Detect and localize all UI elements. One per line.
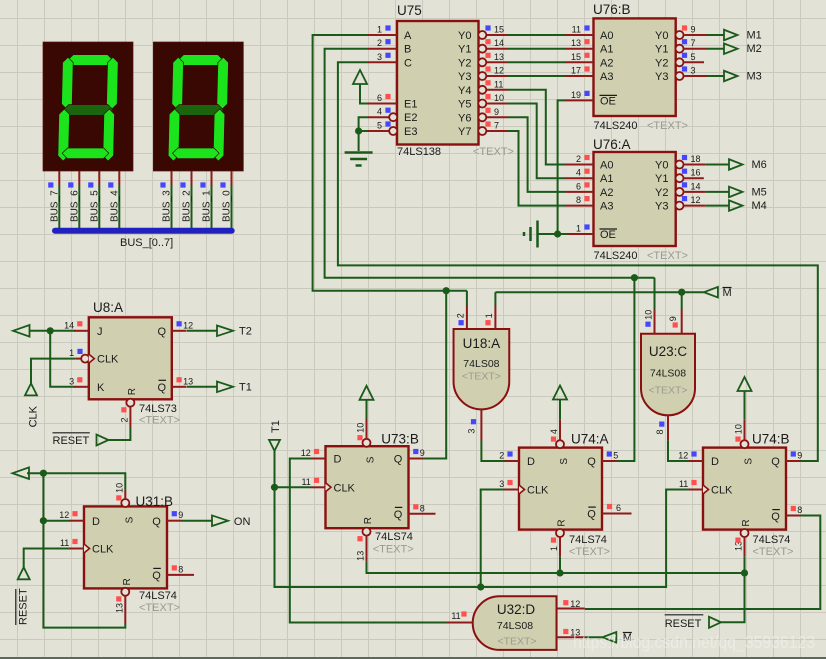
svg-text:8: 8 (655, 429, 665, 434)
svg-text:<TEXT>: <TEXT> (473, 146, 514, 158)
svg-text:Q: Q (152, 570, 161, 582)
svg-text:74LS74: 74LS74 (139, 590, 177, 602)
svg-text:11: 11 (572, 25, 581, 35)
svg-text:10: 10 (356, 423, 366, 433)
svg-text:S: S (124, 516, 135, 523)
svg-text:Y0: Y0 (655, 30, 668, 42)
svg-text:13: 13 (356, 551, 366, 561)
svg-text:BUS_5: BUS_5 (89, 190, 100, 222)
svg-text:OE: OE (600, 95, 616, 107)
svg-text:M5: M5 (752, 186, 767, 198)
svg-text:4: 4 (549, 429, 559, 434)
svg-text:<TEXT>: <TEXT> (569, 546, 610, 558)
svg-text:A: A (404, 30, 412, 42)
svg-text:11: 11 (679, 479, 688, 489)
svg-text:B: B (404, 44, 411, 56)
svg-text:14: 14 (64, 320, 74, 330)
svg-text:BUS_6: BUS_6 (69, 190, 80, 222)
svg-text:16: 16 (691, 168, 701, 178)
svg-text:U74:B: U74:B (752, 432, 790, 447)
svg-text:12: 12 (678, 451, 688, 461)
svg-text:<TEXT>: <TEXT> (647, 120, 688, 132)
svg-text:Y1: Y1 (655, 44, 668, 56)
svg-text:1: 1 (484, 313, 494, 318)
svg-text:9: 9 (797, 451, 802, 461)
svg-text:11: 11 (494, 79, 503, 89)
svg-text:A3: A3 (600, 201, 613, 213)
svg-text:RESET: RESET (53, 435, 90, 447)
svg-text:74LS240: 74LS240 (594, 120, 638, 132)
svg-text:J: J (97, 326, 103, 338)
svg-text:2: 2 (499, 451, 504, 461)
svg-text:Y0: Y0 (458, 30, 471, 42)
svg-text:74LS08: 74LS08 (497, 620, 533, 632)
svg-text:D: D (527, 456, 535, 468)
svg-text:Y2: Y2 (655, 57, 668, 69)
svg-text:D: D (711, 456, 719, 468)
svg-text:2: 2 (120, 417, 130, 422)
svg-text:M3: M3 (747, 71, 762, 83)
svg-text:R: R (741, 519, 752, 526)
svg-text:6: 6 (576, 181, 581, 191)
svg-text:15: 15 (571, 52, 581, 62)
svg-text:U18:A: U18:A (463, 336, 501, 351)
svg-text:Y3: Y3 (655, 201, 668, 213)
svg-text:M4: M4 (752, 200, 767, 212)
svg-text:9: 9 (494, 107, 499, 117)
svg-text:13: 13 (494, 52, 504, 62)
svg-text:5: 5 (613, 451, 618, 461)
svg-text:Y5: Y5 (458, 99, 471, 111)
svg-text:Y3: Y3 (458, 71, 471, 83)
svg-text:A3: A3 (600, 71, 613, 83)
svg-text:Q: Q (152, 516, 161, 528)
svg-text:14: 14 (494, 38, 504, 48)
svg-text:12: 12 (691, 195, 701, 205)
svg-text:Y2: Y2 (458, 57, 471, 69)
svg-text:D: D (92, 516, 100, 528)
svg-text:CLK: CLK (334, 482, 356, 494)
svg-text:74LS74: 74LS74 (753, 534, 791, 546)
svg-text:19: 19 (571, 90, 581, 100)
svg-text:E1: E1 (404, 99, 417, 111)
svg-text:<TEXT>: <TEXT> (753, 546, 794, 558)
svg-text:13: 13 (115, 603, 125, 613)
svg-text:12: 12 (59, 510, 69, 520)
svg-text:S: S (366, 456, 377, 463)
svg-text:74LS240: 74LS240 (594, 250, 638, 262)
svg-text:E3: E3 (404, 126, 417, 138)
svg-text:2: 2 (377, 38, 382, 48)
svg-text:BUS_7: BUS_7 (49, 190, 60, 222)
svg-text:7: 7 (494, 121, 499, 131)
svg-text:<TEXT>: <TEXT> (139, 602, 180, 614)
svg-text:RESET: RESET (665, 618, 702, 630)
svg-text:14: 14 (691, 181, 701, 191)
svg-text:6: 6 (377, 93, 382, 103)
svg-text:Y3: Y3 (655, 71, 668, 83)
svg-text:CLK: CLK (527, 485, 549, 497)
svg-text:Y7: Y7 (458, 126, 471, 138)
svg-text:S: S (559, 458, 570, 465)
svg-text:M2: M2 (747, 43, 762, 55)
svg-text:17: 17 (571, 66, 581, 76)
svg-text:4: 4 (377, 107, 382, 117)
svg-text:BUS_3: BUS_3 (162, 190, 173, 222)
svg-text:U32:D: U32:D (497, 602, 536, 617)
svg-text:A1: A1 (600, 173, 613, 185)
svg-text:2: 2 (576, 154, 581, 164)
svg-text:M6: M6 (752, 159, 767, 171)
svg-text:A2: A2 (600, 187, 613, 199)
svg-text:74LS08: 74LS08 (650, 368, 686, 380)
svg-text:10: 10 (734, 424, 744, 434)
svg-text:8: 8 (420, 503, 425, 513)
svg-text:S: S (744, 458, 755, 465)
svg-text:11: 11 (451, 611, 460, 621)
svg-text:U76:B: U76:B (593, 2, 631, 17)
svg-text:9: 9 (178, 510, 183, 520)
svg-text:12: 12 (183, 320, 193, 330)
svg-text:A2: A2 (600, 57, 613, 69)
svg-text:Y2: Y2 (655, 187, 668, 199)
svg-text:9: 9 (668, 316, 678, 321)
svg-text:https://blog.csdn.net/qq_35936: https://blog.csdn.net/qq_35936123 (573, 632, 815, 653)
svg-text:C: C (404, 57, 412, 69)
svg-text:R: R (122, 578, 133, 585)
svg-text:74LS74: 74LS74 (375, 531, 413, 543)
svg-text:T1: T1 (270, 420, 282, 433)
svg-text:Y1: Y1 (655, 173, 668, 185)
svg-text:Q: Q (394, 454, 403, 466)
svg-text:D: D (334, 454, 342, 466)
svg-text:3: 3 (377, 52, 382, 62)
svg-text:3: 3 (69, 376, 74, 386)
svg-text:15: 15 (494, 25, 504, 35)
svg-text:13: 13 (183, 376, 193, 386)
svg-text:U8:A: U8:A (93, 300, 123, 315)
svg-text:BUS_[0..7]: BUS_[0..7] (120, 237, 173, 249)
svg-text:BUS_2: BUS_2 (182, 190, 193, 222)
svg-text:Y6: Y6 (458, 112, 471, 124)
svg-text:<TEXT>: <TEXT> (647, 250, 688, 262)
svg-text:Q: Q (394, 509, 403, 521)
svg-text:9: 9 (691, 25, 696, 35)
svg-text:74LS74: 74LS74 (569, 534, 607, 546)
svg-text:12: 12 (494, 66, 504, 76)
svg-text:U31:B: U31:B (136, 494, 174, 509)
svg-text:5: 5 (377, 121, 382, 131)
svg-text:M: M (723, 287, 732, 299)
svg-text:BUS_4: BUS_4 (109, 190, 120, 222)
svg-text:3: 3 (467, 429, 477, 434)
svg-text:U73:B: U73:B (381, 432, 419, 447)
svg-text:Q: Q (587, 509, 596, 521)
svg-text:5: 5 (691, 52, 696, 62)
svg-text:BUS_0: BUS_0 (222, 190, 233, 222)
svg-text:3: 3 (499, 479, 504, 489)
svg-text:11: 11 (60, 538, 69, 548)
svg-text:Q: Q (157, 326, 166, 338)
svg-text:74LS08: 74LS08 (463, 358, 499, 370)
svg-text:<TEXT>: <TEXT> (462, 371, 501, 383)
svg-text:10: 10 (494, 93, 504, 103)
svg-text:6: 6 (616, 503, 621, 513)
svg-text:Q: Q (157, 382, 166, 394)
svg-text:9: 9 (420, 448, 425, 458)
svg-text:10: 10 (643, 310, 653, 320)
svg-text:U76:A: U76:A (593, 137, 631, 152)
svg-text:U74:A: U74:A (571, 432, 609, 447)
svg-text:ON: ON (234, 516, 251, 528)
svg-text:E2: E2 (404, 112, 417, 124)
svg-text:A0: A0 (600, 30, 613, 42)
svg-text:CLK: CLK (97, 354, 119, 366)
svg-text:74LS73: 74LS73 (139, 403, 177, 415)
svg-text:M1: M1 (747, 30, 762, 42)
svg-text:Q: Q (771, 511, 780, 523)
svg-text:7: 7 (691, 38, 696, 48)
svg-text:U23:C: U23:C (649, 344, 688, 359)
svg-text:12: 12 (301, 448, 311, 458)
svg-text:A0: A0 (600, 160, 613, 172)
svg-text:1: 1 (69, 348, 74, 358)
svg-text:12: 12 (570, 599, 580, 609)
svg-text:CLK: CLK (92, 544, 114, 556)
svg-text:Q: Q (771, 456, 780, 468)
svg-text:Y1: Y1 (458, 44, 471, 56)
svg-text:74LS138: 74LS138 (397, 146, 441, 158)
svg-text:BUS_1: BUS_1 (202, 190, 213, 222)
svg-text:Y4: Y4 (458, 85, 471, 97)
svg-text:8: 8 (576, 195, 581, 205)
svg-text:OE: OE (600, 229, 616, 241)
svg-text:8: 8 (178, 564, 183, 574)
svg-text:1: 1 (576, 224, 581, 234)
svg-text:CLK: CLK (711, 485, 733, 497)
svg-text:R: R (557, 519, 568, 526)
svg-text:A1: A1 (600, 44, 613, 56)
svg-text:1: 1 (377, 25, 382, 35)
svg-text:<TEXT>: <TEXT> (139, 415, 180, 427)
svg-text:T1: T1 (239, 382, 252, 394)
svg-text:RESET: RESET (18, 588, 30, 625)
svg-text:8: 8 (797, 505, 802, 515)
svg-text:13: 13 (571, 38, 581, 48)
svg-text:1: 1 (549, 546, 559, 551)
svg-text:<TEXT>: <TEXT> (648, 385, 687, 397)
svg-text:<TEXT>: <TEXT> (373, 544, 414, 556)
svg-text:2: 2 (456, 313, 466, 318)
svg-text:R: R (127, 388, 138, 395)
svg-text:<TEXT>: <TEXT> (497, 636, 536, 648)
svg-text:3: 3 (691, 66, 696, 76)
svg-text:CLK: CLK (28, 405, 40, 427)
svg-text:10: 10 (114, 483, 124, 493)
svg-text:R: R (363, 517, 374, 524)
svg-text:Q: Q (587, 456, 596, 468)
svg-text:11: 11 (301, 477, 310, 487)
svg-text:Y0: Y0 (655, 160, 668, 172)
svg-text:K: K (97, 382, 105, 394)
svg-text:T2: T2 (239, 326, 252, 338)
svg-text:4: 4 (576, 168, 581, 178)
svg-text:U75: U75 (397, 3, 422, 18)
svg-text:18: 18 (691, 154, 701, 164)
